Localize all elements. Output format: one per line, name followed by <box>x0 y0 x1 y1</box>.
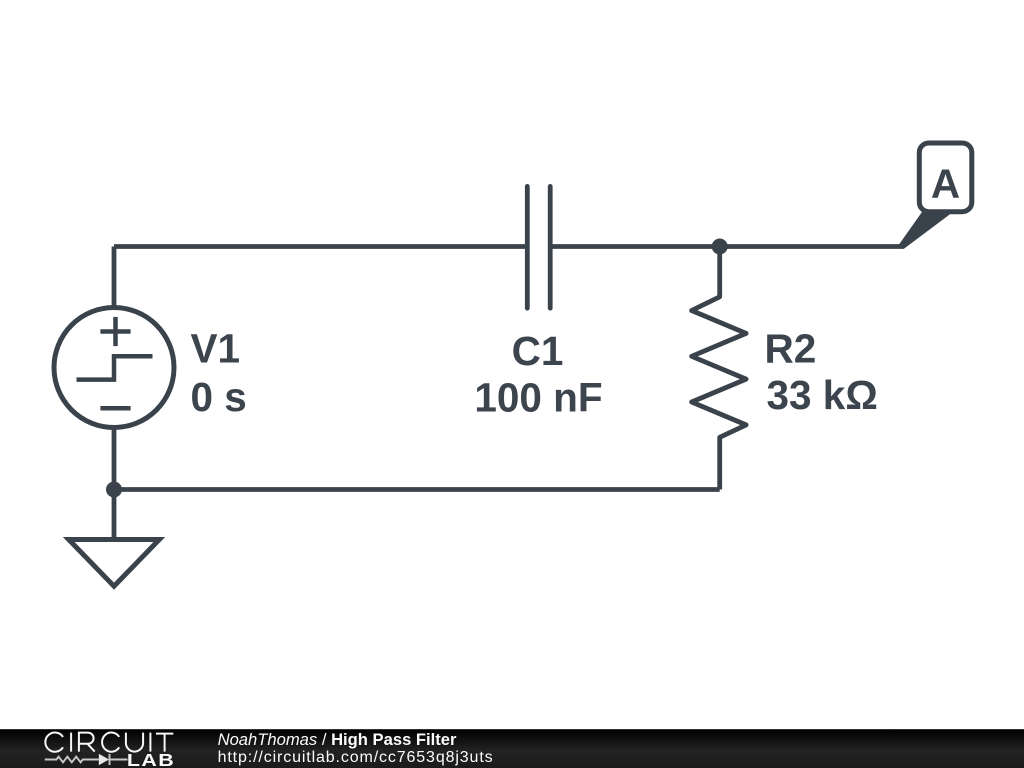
svg-text:http://circuitlab.com/cc7653q8: http://circuitlab.com/cc7653q8j3uts <box>218 749 494 766</box>
svg-text:100 nF: 100 nF <box>474 375 602 421</box>
svg-text:LAB: LAB <box>127 751 175 768</box>
svg-text:0 s: 0 s <box>191 374 247 420</box>
svg-text:R2: R2 <box>765 326 817 372</box>
svg-text:C1: C1 <box>512 328 564 374</box>
svg-text:A: A <box>931 160 960 206</box>
svg-text:NoahThomas / High Pass Filter: NoahThomas / High Pass Filter <box>218 730 457 749</box>
svg-text:33 kΩ: 33 kΩ <box>767 372 878 418</box>
svg-text:V1: V1 <box>191 326 241 372</box>
